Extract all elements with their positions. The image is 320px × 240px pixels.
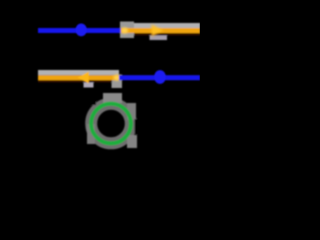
grey artifact band above top orange wire	[121, 23, 200, 28]
dark red glow under bottom orange wire	[38, 80, 112, 83]
grey artifact band above bottom orange wire	[38, 70, 119, 75]
dark red glow under top orange wire	[134, 33, 200, 36]
grey artifact block left of green ring	[87, 124, 95, 144]
grey artifact halo around green ring	[91, 104, 131, 144]
node: blue dot on bottom wire	[154, 70, 166, 84]
wire: top blue segment	[38, 28, 122, 33]
arrowhead on bottom orange wire (pointing left)	[78, 72, 89, 84]
wire: bottom blue segment	[119, 75, 200, 80]
wire: top orange segment	[121, 28, 200, 33]
junction flare on bottom wire	[113, 75, 120, 81]
grey artifact block top-right of green ring	[127, 103, 136, 120]
wire: bottom orange segment	[38, 75, 119, 80]
grey artifact block under bottom arrow	[84, 81, 94, 88]
node: blue dot on top wire	[76, 24, 87, 37]
grey artifact block at bottom junction	[112, 75, 123, 89]
grey artifact block at top junction	[120, 22, 134, 39]
black notch right of green ring	[135, 119, 142, 134]
junction flare on top wire	[121, 27, 128, 33]
arrowhead on top orange wire (pointing right)	[152, 25, 164, 37]
green ring	[91, 104, 131, 144]
black notch top-left of green ring	[86, 96, 96, 105]
grey artifact block under top arrow	[150, 33, 168, 40]
grey artifact block above green ring	[103, 93, 122, 103]
grey artifact block right-bottom of green ring	[127, 135, 137, 148]
